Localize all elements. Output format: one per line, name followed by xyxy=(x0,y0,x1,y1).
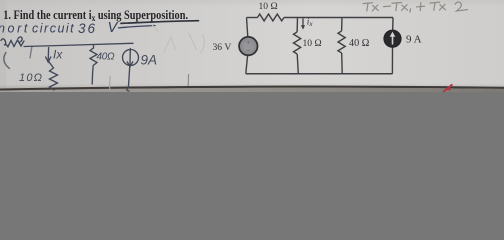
svg-text:9A: 9A xyxy=(141,53,158,68)
handwritten scribble 8-ohm squiggle, top-left xyxy=(1,37,24,47)
ghost pencil marks (faint) xyxy=(151,24,204,53)
red pen mark bottom right xyxy=(444,85,452,92)
sketch wire to 10-ohm resistor xyxy=(48,61,53,68)
resistor 40 ohm vertical zigzag xyxy=(338,31,345,53)
sketch wire below current source xyxy=(128,66,129,88)
svg-text:V: V xyxy=(108,20,119,36)
svg-text:Ix: Ix xyxy=(53,48,63,62)
svg-text:nort: nort xyxy=(0,21,30,35)
right edge wire below current source xyxy=(391,47,393,73)
blue pen dash after handwritten V xyxy=(119,26,156,28)
current source arrow (light, pointing up) xyxy=(392,36,394,45)
svg-text:40 Ω: 40 Ω xyxy=(349,38,370,49)
top wire left segment xyxy=(247,17,258,19)
svg-text:36 V: 36 V xyxy=(213,42,232,53)
formula equals/minus xyxy=(384,5,391,8)
handwritten note: nort circuit 36 V (blue pen) xyxy=(0,20,119,36)
svg-text:40Ω: 40Ω xyxy=(97,52,116,63)
table surface below paper edge xyxy=(0,88,504,92)
svg-text:10 Ω: 10 Ω xyxy=(259,1,278,12)
40 ohm branch lower wire xyxy=(341,53,344,74)
sketch resistor 10 ohm squiggle xyxy=(50,68,58,90)
voltage source plus/minus marks xyxy=(247,41,251,51)
title text xyxy=(3,9,188,23)
paper background xyxy=(0,0,504,92)
formula Ix1 xyxy=(392,2,402,5)
resistor 10 ohm vertical zigzag xyxy=(294,32,301,54)
formula plus xyxy=(417,5,425,8)
right edge wire above current source xyxy=(392,18,394,31)
left edge wire down to source xyxy=(247,18,248,37)
resistor 10 ohm horizontal zigzag xyxy=(258,14,284,21)
svg-text:circuit: circuit xyxy=(32,22,75,36)
svg-text:36: 36 xyxy=(78,21,97,36)
sketch resistor 40 ohm squiggle xyxy=(90,45,97,85)
svg-text:10 Ω: 10 Ω xyxy=(303,38,322,49)
sketch left stub wire xyxy=(30,46,32,58)
sketch top wire xyxy=(24,43,133,46)
faint vertical line lower-left below sketch xyxy=(109,76,111,92)
formula Ix xyxy=(363,2,373,5)
sketch hook at bottom of wire xyxy=(127,88,129,92)
faint vertical pencil line right of sketch xyxy=(187,74,189,86)
ix branch upper wire xyxy=(296,18,298,33)
hand-drawn underline under Superposition xyxy=(121,21,199,24)
left edge shading xyxy=(0,0,6,92)
sketch current source circle xyxy=(123,50,139,66)
svg-text:9 A: 9 A xyxy=(406,33,422,45)
sketch curved stroke left margin xyxy=(4,53,10,69)
top wire right segment xyxy=(284,17,393,19)
current source 9A circle (filled) xyxy=(384,30,401,47)
voltage source 36V circle xyxy=(239,37,257,55)
formula 2 xyxy=(455,2,468,11)
svg-text:10Ω: 10Ω xyxy=(19,72,43,84)
paper bottom edge shadow band xyxy=(0,82,504,90)
bottom wire xyxy=(246,73,393,75)
sketch current source arrow xyxy=(129,49,131,66)
40 ohm branch upper wire xyxy=(341,18,343,32)
paper edge dark line xyxy=(0,87,504,90)
ix current arrow xyxy=(302,18,304,26)
sketch Ix arrow xyxy=(47,48,49,61)
ix branch lower wire xyxy=(297,54,298,74)
top edge shading xyxy=(0,0,504,7)
formula Ix xyxy=(430,1,440,4)
left edge wire below source xyxy=(246,55,248,73)
